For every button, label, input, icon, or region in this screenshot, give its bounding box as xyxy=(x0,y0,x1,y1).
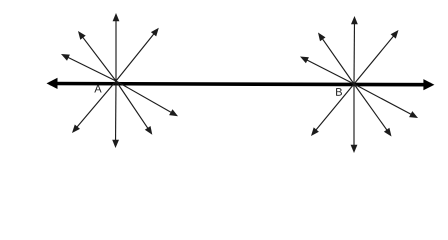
arrow ray from node B, up-left steep xyxy=(318,33,354,85)
arrow ray from node A, up xyxy=(113,13,120,81)
arrow ray from node A, down xyxy=(112,81,119,148)
arrow ray from node A, up-right xyxy=(116,28,159,81)
arrow ray from node B, up-right xyxy=(354,30,399,84)
arrow ray from node B, down-left xyxy=(311,84,354,136)
wire: thick horizontal line through A and B xyxy=(47,78,435,91)
arrow ray from node A, up-left shallow xyxy=(61,54,116,81)
arrow ray from node A, down-right steep xyxy=(116,81,152,135)
arrow ray from node B, down xyxy=(351,84,358,153)
arrow ray from node B, up xyxy=(351,16,358,84)
node A label xyxy=(94,85,101,93)
arrow ray from node A, down-left xyxy=(72,81,116,133)
arrow ray from node A, down-right shallow xyxy=(116,81,178,116)
node B label xyxy=(336,88,342,96)
arrow ray from node B, down-right steep xyxy=(354,84,392,137)
arrow ray from node B, up-left shallow xyxy=(300,57,354,85)
arrow ray from node A, up-left steep xyxy=(78,31,116,81)
arrow ray from node B, down-right shallow xyxy=(354,84,418,118)
